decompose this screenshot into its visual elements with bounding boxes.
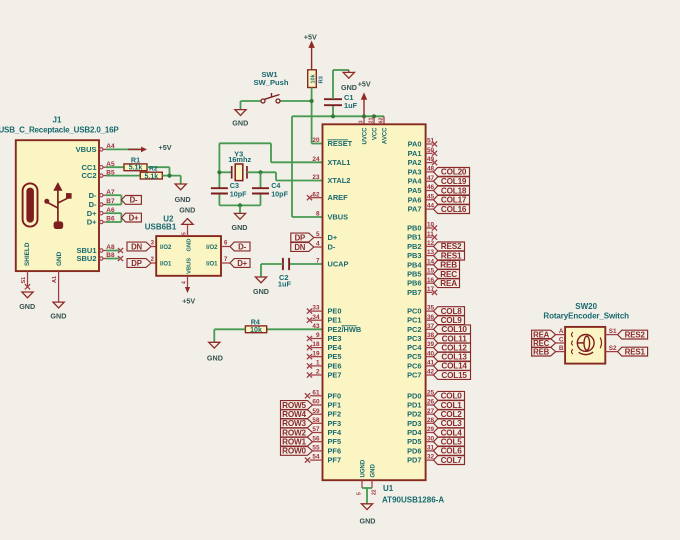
svg-text:COL10: COL10 — [441, 325, 467, 334]
svg-text:ROW2: ROW2 — [282, 428, 306, 437]
svg-text:PE3: PE3 — [328, 334, 342, 343]
svg-text:PE1: PE1 — [328, 316, 342, 325]
svg-text:PB4: PB4 — [407, 260, 422, 269]
svg-text:22: 22 — [372, 489, 378, 495]
svg-text:PC2: PC2 — [407, 325, 421, 334]
svg-text:REB: REB — [533, 347, 549, 356]
svg-text:PD3: PD3 — [407, 419, 421, 428]
svg-text:PB0: PB0 — [407, 224, 421, 233]
svg-text:AVCC: AVCC — [382, 127, 388, 144]
svg-text:3: 3 — [358, 120, 364, 123]
svg-text:PE4: PE4 — [328, 343, 343, 352]
svg-text:21: 21 — [368, 117, 374, 123]
svg-text:10pF: 10pF — [230, 190, 247, 199]
svg-text:COL11: COL11 — [442, 334, 468, 343]
svg-text:D+: D+ — [328, 233, 338, 242]
svg-text:SW_Push: SW_Push — [253, 78, 288, 87]
svg-text:PB2: PB2 — [407, 242, 421, 251]
svg-text:D+: D+ — [237, 259, 247, 268]
svg-text:COL19: COL19 — [441, 177, 467, 186]
svg-text:PB5: PB5 — [407, 270, 421, 279]
svg-text:10k: 10k — [250, 327, 262, 334]
svg-text:PD6: PD6 — [407, 446, 421, 455]
svg-text:REC: REC — [440, 270, 457, 279]
svg-text:RotaryEncoder_Switch: RotaryEncoder_Switch — [543, 312, 629, 321]
svg-text:GND: GND — [370, 464, 376, 478]
svg-text:AREF: AREF — [328, 193, 349, 202]
svg-text:PA4: PA4 — [408, 177, 423, 186]
svg-text:S1: S1 — [609, 328, 617, 335]
svg-text:XTAL2: XTAL2 — [328, 176, 351, 185]
svg-text:D-: D- — [238, 242, 246, 251]
svg-text:PA0: PA0 — [408, 140, 422, 149]
svg-text:COL7: COL7 — [441, 456, 463, 465]
svg-text:GND: GND — [179, 205, 195, 214]
svg-text:RES2: RES2 — [625, 330, 646, 339]
svg-text:PC5: PC5 — [407, 352, 421, 361]
svg-text:SW20: SW20 — [575, 302, 597, 311]
svg-text:PD2: PD2 — [407, 410, 421, 419]
svg-text:COL8: COL8 — [441, 307, 463, 316]
svg-text:VBUS: VBUS — [328, 213, 349, 222]
svg-text:S2: S2 — [609, 345, 617, 352]
svg-text:SHIELD: SHIELD — [24, 242, 31, 266]
svg-text:COL0: COL0 — [441, 392, 463, 401]
svg-text:PF3: PF3 — [328, 419, 342, 428]
svg-text:I/O1: I/O1 — [206, 261, 218, 267]
svg-text:XTAL1: XTAL1 — [328, 158, 351, 167]
svg-text:S1: S1 — [21, 277, 27, 284]
svg-text:PD1: PD1 — [407, 401, 421, 410]
svg-text:1uF: 1uF — [344, 101, 358, 110]
svg-text:PA2: PA2 — [408, 158, 422, 167]
svg-text:COL6: COL6 — [441, 447, 463, 456]
svg-text:DN: DN — [131, 242, 142, 251]
svg-text:RESET: RESET — [328, 139, 353, 148]
svg-text:C: C — [559, 337, 564, 344]
svg-text:+5V: +5V — [159, 143, 172, 152]
svg-text:RES1: RES1 — [625, 347, 646, 356]
svg-text:PC3: PC3 — [407, 334, 421, 343]
svg-text:D+: D+ — [87, 209, 97, 218]
svg-text:16mhz: 16mhz — [228, 155, 251, 164]
svg-text:DP: DP — [131, 259, 141, 268]
svg-text:GND: GND — [341, 83, 357, 92]
svg-text:5.1k: 5.1k — [144, 174, 158, 181]
svg-text:COL1: COL1 — [441, 401, 463, 410]
svg-text:PB7: PB7 — [407, 288, 421, 297]
svg-text:AT90USB1286-A: AT90USB1286-A — [382, 496, 444, 505]
svg-text:8: 8 — [316, 211, 320, 218]
svg-text:PF2: PF2 — [328, 410, 342, 419]
svg-text:5: 5 — [357, 492, 363, 495]
svg-text:CC2: CC2 — [81, 171, 96, 180]
svg-text:D-: D- — [130, 196, 138, 205]
svg-text:R2: R2 — [149, 166, 158, 173]
svg-text:I/O1: I/O1 — [160, 261, 172, 267]
svg-text:PC7: PC7 — [407, 371, 421, 380]
svg-text:GND: GND — [186, 239, 192, 252]
svg-text:UCAP: UCAP — [328, 260, 349, 269]
svg-text:GND: GND — [360, 517, 376, 526]
svg-text:I/O2: I/O2 — [160, 245, 172, 251]
svg-text:PF0: PF0 — [328, 391, 342, 400]
svg-text:GND: GND — [232, 118, 248, 127]
svg-text:ROW5: ROW5 — [282, 401, 306, 410]
svg-text:PB6: PB6 — [407, 279, 421, 288]
svg-text:COL4: COL4 — [441, 428, 463, 437]
svg-text:PC1: PC1 — [407, 316, 421, 325]
svg-text:PE0: PE0 — [328, 307, 342, 316]
svg-text:A1: A1 — [52, 276, 58, 283]
svg-text:GND: GND — [175, 195, 191, 204]
svg-text:ROW0: ROW0 — [282, 447, 306, 456]
svg-text:5: 5 — [182, 232, 188, 235]
svg-text:R3: R3 — [319, 75, 325, 83]
svg-text:PD4: PD4 — [407, 428, 422, 437]
svg-text:I/O2: I/O2 — [206, 245, 218, 251]
svg-text:D+: D+ — [87, 218, 97, 227]
svg-text:RES1: RES1 — [441, 251, 462, 260]
svg-text:D-: D- — [89, 200, 97, 209]
svg-text:D-: D- — [328, 243, 336, 252]
svg-text:PC6: PC6 — [407, 361, 421, 370]
svg-text:UGND: UGND — [360, 459, 366, 477]
svg-text:COL3: COL3 — [441, 419, 463, 428]
svg-text:10k: 10k — [310, 73, 316, 83]
svg-text:R1: R1 — [131, 156, 140, 165]
svg-text:PF6: PF6 — [328, 446, 342, 455]
svg-text:COL20: COL20 — [441, 168, 467, 177]
svg-text:PF4: PF4 — [328, 428, 342, 437]
svg-text:D+: D+ — [129, 213, 139, 222]
svg-text:+5V: +5V — [182, 297, 195, 306]
svg-text:PE5: PE5 — [328, 352, 342, 361]
svg-text:GND: GND — [56, 251, 63, 266]
svg-text:REA: REA — [440, 279, 457, 288]
svg-text:RES2: RES2 — [441, 242, 462, 251]
svg-text:PF1: PF1 — [328, 401, 342, 410]
svg-text:PC4: PC4 — [407, 343, 422, 352]
svg-text:PC0: PC0 — [407, 307, 421, 316]
svg-text:10pF: 10pF — [271, 190, 288, 199]
svg-text:7: 7 — [316, 258, 320, 265]
svg-text:PE6: PE6 — [328, 361, 342, 370]
svg-text:VBUS: VBUS — [76, 145, 97, 154]
svg-text:+5V: +5V — [358, 79, 371, 88]
svg-text:COL5: COL5 — [441, 438, 463, 447]
svg-text:PD0: PD0 — [407, 391, 421, 400]
svg-text:SBU2: SBU2 — [76, 254, 96, 263]
svg-text:COL15: COL15 — [441, 371, 467, 380]
svg-text:UVCC: UVCC — [362, 127, 368, 145]
svg-text:COL12: COL12 — [441, 343, 467, 352]
svg-text:PA7: PA7 — [408, 205, 422, 214]
svg-text:GND: GND — [253, 287, 269, 296]
svg-text:PA3: PA3 — [408, 167, 422, 176]
svg-text:COL13: COL13 — [441, 353, 467, 362]
svg-text:PA1: PA1 — [408, 149, 422, 158]
svg-text:24: 24 — [312, 156, 320, 163]
svg-text:4: 4 — [182, 281, 188, 284]
svg-text:PD5: PD5 — [407, 437, 421, 446]
svg-text:1uF: 1uF — [278, 280, 292, 289]
svg-text:62: 62 — [378, 117, 384, 123]
svg-text:PA5: PA5 — [408, 186, 422, 195]
svg-text:23: 23 — [312, 174, 320, 181]
svg-text:D-: D- — [89, 191, 97, 200]
svg-text:U1: U1 — [383, 484, 394, 493]
svg-text:B: B — [559, 345, 564, 352]
svg-text:20: 20 — [312, 137, 320, 144]
svg-text:ROW4: ROW4 — [282, 410, 306, 419]
svg-text:R4: R4 — [251, 317, 260, 326]
svg-text:+5V: +5V — [304, 32, 317, 41]
svg-text:J1: J1 — [53, 115, 62, 124]
svg-text:PF5: PF5 — [328, 437, 342, 446]
svg-text:GND: GND — [232, 223, 248, 232]
svg-text:VBUS: VBUS — [186, 258, 192, 274]
svg-text:COL9: COL9 — [441, 316, 463, 325]
svg-text:USB6B1: USB6B1 — [145, 223, 177, 232]
svg-text:COL16: COL16 — [441, 205, 467, 214]
svg-text:PE7: PE7 — [328, 371, 342, 380]
svg-text:REB: REB — [440, 261, 457, 270]
svg-text:COL14: COL14 — [441, 362, 467, 371]
svg-text:PA6: PA6 — [408, 195, 422, 204]
svg-text:DN: DN — [294, 243, 305, 252]
svg-text:43: 43 — [312, 323, 320, 330]
svg-text:5.1k: 5.1k — [129, 165, 143, 172]
svg-text:GND: GND — [50, 312, 66, 321]
svg-text:COL2: COL2 — [441, 410, 463, 419]
svg-text:PD7: PD7 — [407, 456, 421, 465]
svg-text:DP: DP — [295, 233, 305, 242]
svg-text:VCC: VCC — [372, 127, 378, 140]
svg-text:A: A — [559, 328, 564, 335]
svg-text:COL18: COL18 — [441, 186, 467, 195]
svg-text:GND: GND — [207, 354, 223, 363]
svg-text:USB_C_Receptacle_USB2.0_16P: USB_C_Receptacle_USB2.0_16P — [0, 125, 119, 134]
svg-text:COL17: COL17 — [441, 196, 467, 205]
svg-text:PB3: PB3 — [407, 251, 421, 260]
svg-text:ROW3: ROW3 — [282, 419, 306, 428]
svg-text:ROW1: ROW1 — [282, 438, 306, 447]
svg-text:GND: GND — [19, 302, 35, 311]
svg-text:PB1: PB1 — [407, 233, 421, 242]
svg-text:PF7: PF7 — [328, 456, 342, 465]
